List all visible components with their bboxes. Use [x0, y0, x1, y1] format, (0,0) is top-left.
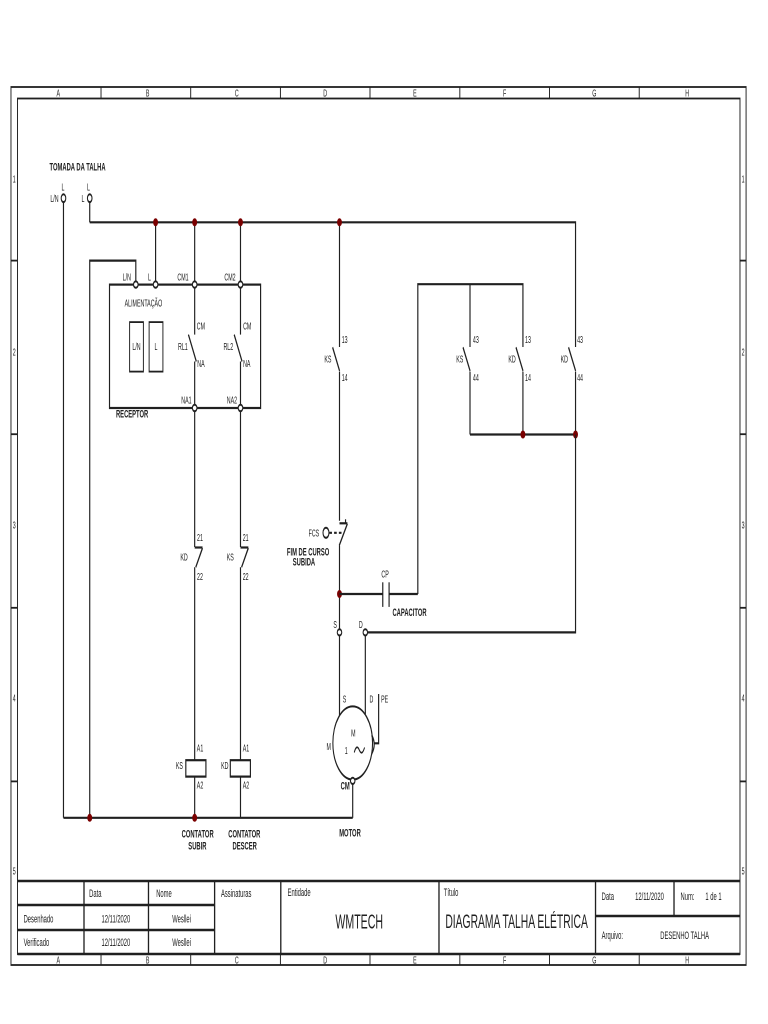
supply block L/N — [130, 322, 144, 372]
svg-text:NA1: NA1 — [181, 395, 192, 406]
svg-text:3: 3 — [742, 520, 745, 531]
wire bus to receptor CM2 — [239, 222, 241, 281]
svg-text:SUBIDA: SUBIDA — [293, 556, 316, 568]
svg-text:2: 2 — [13, 347, 16, 358]
relay contact RL2 — [223, 288, 251, 405]
coil KD (contator descer) — [221, 743, 261, 852]
svg-text:CAPACITOR: CAPACITOR — [392, 606, 427, 618]
svg-text:14: 14 — [525, 372, 531, 383]
svg-text:FCS: FCS — [309, 528, 320, 539]
svg-text:RECEPTOR: RECEPTOR — [116, 408, 149, 420]
wire NA2 down to KS NC contact — [239, 411, 241, 547]
svg-text:A1: A1 — [197, 743, 204, 754]
node bus junction L — [153, 218, 158, 226]
svg-text:ALIMENTAÇÃO: ALIMENTAÇÃO — [125, 298, 163, 309]
wire L terminal down to top bus — [89, 202, 91, 222]
svg-text:KS: KS — [227, 552, 234, 563]
svg-text:D: D — [370, 694, 374, 705]
wire capacitor up to aux contacts bar — [418, 284, 523, 594]
svg-text:NA: NA — [197, 358, 205, 369]
limit switch FCS — [287, 519, 348, 568]
svg-text:RL2: RL2 — [223, 341, 233, 352]
wire L/N terminal down to bottom rail — [62, 202, 64, 818]
wire D to motor — [364, 636, 366, 715]
svg-text:12/11/2020: 12/11/2020 — [635, 890, 664, 902]
svg-text:CM1: CM1 — [177, 272, 189, 283]
svg-text:KD: KD — [221, 760, 229, 771]
relay contact RL1 — [178, 288, 205, 405]
svg-text:CM2: CM2 — [224, 272, 236, 283]
node bus junction CM1 — [192, 218, 197, 226]
receptor box RECEPTOR — [110, 285, 261, 420]
svg-text:Wesllei: Wesllei — [172, 936, 191, 948]
terminal L (plug socket) — [81, 182, 92, 205]
node S (motor terminal) — [333, 619, 341, 635]
svg-text:13: 13 — [525, 334, 531, 345]
capacitor CP — [339, 569, 427, 619]
node capacitor junction — [337, 590, 342, 598]
svg-text:Título: Título — [444, 886, 459, 898]
node bus junction CM2 — [238, 218, 243, 226]
svg-text:1: 1 — [13, 174, 16, 185]
svg-text:4: 4 — [742, 693, 745, 704]
wire KD44 down to motor D — [368, 435, 576, 633]
svg-text:Arquivo:: Arquivo: — [602, 929, 623, 941]
svg-text:TOMADA DA TALHA: TOMADA DA TALHA — [50, 161, 106, 173]
terminal L/N (plug socket) — [50, 182, 65, 205]
wire bus down to KS contact 13 — [338, 222, 340, 347]
wire KS22 down to coil KD A1 — [239, 567, 241, 760]
svg-text:43: 43 — [577, 334, 583, 345]
svg-text:S: S — [333, 619, 337, 630]
svg-text:43: 43 — [473, 334, 479, 345]
wire CM down to bottom rail — [352, 784, 354, 818]
label MOTOR — [339, 827, 361, 839]
svg-text:B: B — [146, 955, 150, 966]
svg-text:L: L — [148, 272, 151, 283]
coil KS (contator subir) — [176, 743, 214, 852]
svg-text:RL1: RL1 — [178, 341, 188, 352]
svg-text:22: 22 — [197, 571, 203, 582]
svg-text:C: C — [235, 955, 239, 966]
svg-text:Entidade: Entidade — [288, 886, 311, 898]
svg-text:12/11/2020: 12/11/2020 — [102, 913, 131, 925]
contact KD 21-22 normally closed — [180, 532, 203, 582]
svg-text:Wesllei: Wesllei — [172, 913, 191, 925]
wire S to motor — [338, 636, 340, 717]
svg-text:D: D — [323, 88, 327, 99]
svg-text:Assinaturas: Assinaturas — [221, 887, 252, 899]
svg-text:NA: NA — [243, 358, 251, 369]
wire aux bar to KS43 — [469, 284, 471, 347]
svg-text:H: H — [685, 88, 689, 99]
svg-text:SUBIR: SUBIR — [188, 840, 207, 852]
svg-text:CONTATOR: CONTATOR — [182, 828, 214, 840]
svg-text:1: 1 — [742, 174, 745, 185]
svg-text:G: G — [592, 88, 596, 99]
svg-text:WMTECH: WMTECH — [335, 912, 383, 933]
svg-text:12/11/2020: 12/11/2020 — [102, 936, 131, 948]
wire top bus L — [90, 222, 576, 347]
svg-text:Desenhado: Desenhado — [24, 913, 54, 925]
contact KS 13-14 normally open — [324, 334, 348, 383]
svg-text:Data: Data — [602, 890, 614, 902]
pin CM2 of receptor — [224, 272, 242, 288]
svg-text:13: 13 — [342, 334, 348, 345]
svg-text:Nome: Nome — [156, 887, 172, 899]
svg-text:CM: CM — [197, 321, 205, 332]
pin NA2 of receptor — [227, 395, 243, 411]
svg-text:L: L — [155, 341, 158, 352]
node bottom rail KS A2 — [192, 814, 197, 822]
svg-text:DESENHO TALHA: DESENHO TALHA — [660, 929, 709, 941]
svg-text:4: 4 — [13, 693, 16, 704]
svg-text:CP: CP — [381, 569, 388, 580]
PE frame arc — [372, 735, 375, 754]
node aux rail KD44 — [573, 431, 578, 439]
svg-text:E: E — [413, 955, 417, 966]
svg-text:5: 5 — [742, 866, 745, 877]
svg-text:KS: KS — [456, 354, 463, 365]
svg-text:S: S — [343, 694, 347, 705]
svg-text:L/N: L/N — [123, 272, 131, 283]
svg-text:MOTOR: MOTOR — [339, 827, 361, 839]
svg-text:KD: KD — [180, 552, 188, 563]
wire PE stub — [374, 694, 379, 743]
svg-text:44: 44 — [473, 372, 479, 383]
contact KS 21-22 normally closed — [227, 532, 249, 582]
motor M1 — [326, 694, 388, 780]
wire bottom rail — [63, 817, 352, 819]
svg-text:21: 21 — [197, 532, 203, 543]
wire bus to receptor L — [154, 222, 156, 281]
pin L of receptor — [148, 272, 158, 288]
pin NA1 of receptor — [181, 395, 197, 411]
wire KD22 down to coil KS A1 — [194, 567, 196, 760]
svg-text:L: L — [81, 193, 84, 204]
svg-text:CM: CM — [243, 321, 251, 332]
svg-text:44: 44 — [577, 372, 583, 383]
svg-text:A1: A1 — [243, 743, 250, 754]
svg-text:Verificado: Verificado — [24, 936, 50, 948]
svg-text:L: L — [87, 182, 90, 193]
svg-text:Data: Data — [89, 887, 101, 899]
svg-text:PE: PE — [381, 694, 388, 705]
svg-text:C: C — [235, 88, 239, 99]
supply block L — [149, 322, 163, 372]
svg-text:DESCER: DESCER — [233, 840, 258, 852]
svg-text:22: 22 — [243, 571, 249, 582]
svg-text:A: A — [57, 955, 61, 966]
svg-text:M: M — [326, 741, 331, 752]
svg-text:2: 2 — [742, 347, 745, 358]
pin CM1 of receptor — [177, 272, 197, 288]
svg-text:D: D — [359, 619, 363, 630]
svg-text:B: B — [146, 88, 150, 99]
contact KD 13-14 normally open — [508, 334, 531, 434]
wire aux bottom rail — [470, 433, 576, 435]
svg-text:3: 3 — [13, 520, 16, 531]
wire KS14 down to FCS — [338, 372, 340, 521]
svg-text:D: D — [323, 955, 327, 966]
svg-text:KS: KS — [176, 760, 183, 771]
contact KD 43-44 normally open — [561, 334, 584, 434]
svg-text:KD: KD — [508, 354, 516, 365]
svg-text:E: E — [413, 88, 417, 99]
svg-text:KS: KS — [324, 354, 331, 365]
svg-text:L/N: L/N — [132, 341, 140, 352]
svg-text:14: 14 — [342, 372, 348, 383]
svg-text:Num:: Num: — [681, 890, 695, 902]
svg-text:DIAGRAMA TALHA ELÉTRICA: DIAGRAMA TALHA ELÉTRICA — [445, 909, 588, 933]
node bottom rail L/N — [87, 814, 92, 822]
svg-text:M: M — [351, 728, 356, 739]
wire L/N hook to receptor — [90, 261, 136, 818]
svg-text:5: 5 — [13, 866, 16, 877]
svg-text:A2: A2 — [197, 780, 204, 791]
svg-text:A: A — [57, 88, 61, 99]
svg-text:A2: A2 — [243, 780, 250, 791]
node D (motor terminal) — [359, 619, 368, 635]
label TOMADA DA TALHA — [50, 161, 106, 173]
svg-text:21: 21 — [243, 532, 249, 543]
node aux rail KD14 — [520, 431, 525, 439]
node bus junction KS13 — [337, 218, 342, 226]
svg-text:L: L — [62, 182, 65, 193]
svg-text:CONTATOR: CONTATOR — [228, 828, 260, 840]
svg-text:F: F — [503, 88, 506, 99]
svg-text:F: F — [503, 955, 506, 966]
wire bus to receptor CM1 — [194, 222, 196, 281]
svg-text:L/N: L/N — [50, 193, 58, 204]
svg-text:H: H — [685, 955, 689, 966]
svg-text:1: 1 — [345, 745, 348, 756]
node CM (motor terminal) — [341, 778, 355, 792]
svg-text:CM: CM — [341, 780, 350, 792]
svg-text:1 de 1: 1 de 1 — [705, 890, 721, 902]
contact KS 43-44 normally open — [456, 334, 479, 434]
svg-text:KD: KD — [561, 354, 569, 365]
wire NA1 down to KD NC contact — [194, 411, 196, 547]
svg-text:NA2: NA2 — [227, 395, 238, 406]
pin L/N of receptor — [123, 272, 138, 288]
wire FCS down to node S — [338, 546, 340, 630]
svg-text:G: G — [592, 955, 596, 966]
